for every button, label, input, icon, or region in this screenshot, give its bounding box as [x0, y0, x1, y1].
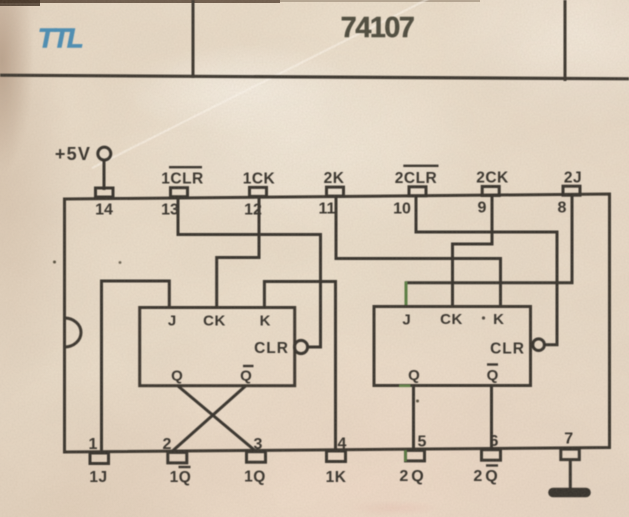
wire 2J green segment at U2 J input — [405, 282, 408, 308]
header divider vertical right — [564, 0, 567, 81]
wire 1CLR pin13 to U1 CLR bubble — [178, 197, 321, 347]
power terminal circle — [98, 147, 111, 160]
wire 2K pin11 to U2 K — [336, 195, 501, 307]
header rule horizontal — [0, 75, 629, 79]
pin 13 stub — [171, 188, 188, 197]
U2 CLR bubble — [533, 339, 545, 351]
U2 label Qbar — [487, 365, 499, 385]
ground bar — [553, 488, 586, 498]
pin 7 stub — [561, 449, 580, 460]
wire 1K pin4 to U1 K — [264, 282, 335, 451]
green mark on U2 bottom edge — [399, 384, 411, 387]
wire U2 Q to pin 5 — [412, 386, 415, 451]
paper crease highlight — [92, 0, 438, 168]
pin 6 stub — [482, 450, 501, 461]
wire 2CK pin9 to U2 CK — [453, 194, 493, 307]
wire U1 Q to pin 3 (cross) — [178, 386, 256, 451]
speck dots — [53, 261, 56, 264]
wire 1J pin1 to U1 J — [102, 281, 170, 453]
header divider vertical left — [192, 0, 195, 78]
pin 10 stub — [409, 187, 426, 196]
wire +5V to pin 14 — [103, 160, 106, 191]
wire 1CK pin12 to U1 CK — [217, 196, 259, 307]
pin 5 stub green edge — [404, 450, 407, 462]
speck dot near U2 K — [482, 316, 485, 319]
U1 label Qbar — [240, 366, 253, 385]
scan top edge — [0, 0, 480, 6]
wire pin 7 to ground — [569, 460, 572, 488]
pin 5 stub — [406, 450, 425, 461]
pin 4 stub — [327, 451, 346, 462]
pin 11 stub — [327, 187, 344, 196]
pin 8 stub — [563, 186, 580, 195]
notch on left edge — [65, 318, 82, 347]
wire U2 Qbar to pin 6 — [490, 386, 493, 451]
net label 1CLR — [161, 167, 203, 187]
U1 CLR bubble — [294, 340, 307, 353]
pin 3 stub — [247, 452, 266, 463]
pin 2 stub — [168, 452, 187, 463]
flip-flop U2 box — [374, 307, 531, 386]
pin 14 stub — [96, 188, 114, 197]
wire 2J pin8 to U2 J — [405, 193, 572, 282]
pin 9 stub — [482, 187, 499, 196]
net label 2Qbar — [473, 466, 500, 486]
net label 1Qbar — [170, 467, 192, 486]
IC outline DIP-14 — [65, 194, 610, 452]
pin 1 stub — [90, 453, 109, 464]
wire 2CLR pin10 to U2 CLR bubble — [416, 195, 557, 345]
net label 2CLR — [395, 166, 439, 187]
wire U1 Qbar to pin 2 (cross) — [173, 386, 246, 451]
flip-flop U1 box — [140, 308, 295, 386]
pin 12 stub — [250, 187, 267, 196]
